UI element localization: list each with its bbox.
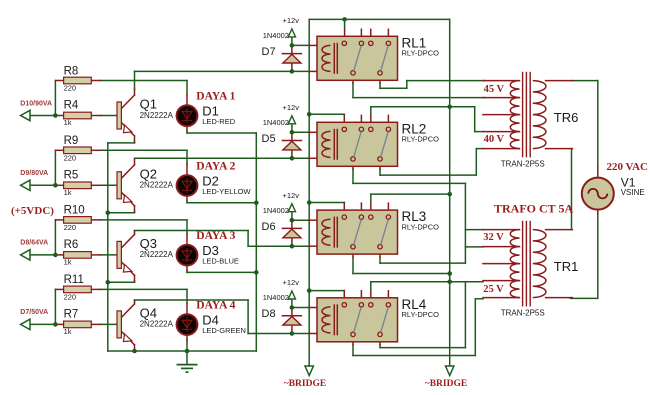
svg-text:1k: 1k bbox=[64, 188, 72, 197]
svg-text:~BRIDGE: ~BRIDGE bbox=[284, 379, 326, 389]
svg-text:R8: R8 bbox=[64, 65, 79, 77]
svg-text:R7: R7 bbox=[64, 309, 79, 321]
svg-text:+12v: +12v bbox=[283, 278, 300, 287]
svg-text:VSINE: VSINE bbox=[621, 188, 645, 197]
svg-text:D8: D8 bbox=[262, 308, 276, 320]
svg-text:2N2222A: 2N2222A bbox=[140, 320, 174, 329]
svg-text:1N4002: 1N4002 bbox=[263, 206, 289, 215]
svg-text:D7/50VA: D7/50VA bbox=[20, 309, 48, 316]
svg-text:220: 220 bbox=[64, 84, 77, 93]
svg-text:D5: D5 bbox=[262, 133, 276, 145]
svg-text:220: 220 bbox=[64, 153, 77, 162]
svg-text:DAYA 2: DAYA 2 bbox=[196, 160, 235, 172]
svg-text:D6: D6 bbox=[262, 221, 276, 233]
svg-text:D10/90VA: D10/90VA bbox=[20, 100, 52, 107]
svg-text:220 VAC: 220 VAC bbox=[607, 161, 649, 173]
svg-text:TRAN-2P5S: TRAN-2P5S bbox=[501, 309, 545, 318]
svg-text:2N2222A: 2N2222A bbox=[140, 181, 174, 190]
svg-text:TRAN-2P5S: TRAN-2P5S bbox=[501, 160, 545, 169]
svg-text:R6: R6 bbox=[64, 239, 79, 251]
svg-text:TR6: TR6 bbox=[554, 110, 579, 125]
svg-text:+12v: +12v bbox=[283, 16, 300, 25]
svg-text:RLY-DPCO: RLY-DPCO bbox=[402, 135, 440, 144]
svg-text:R9: R9 bbox=[64, 135, 79, 147]
svg-text:45 V: 45 V bbox=[484, 84, 505, 95]
svg-text:R5: R5 bbox=[64, 170, 79, 182]
svg-text:1k: 1k bbox=[64, 327, 72, 336]
svg-text:220: 220 bbox=[64, 223, 77, 232]
svg-text:(+5VDC): (+5VDC) bbox=[11, 205, 54, 217]
svg-text:R4: R4 bbox=[64, 100, 79, 112]
svg-text:RLY-DPCO: RLY-DPCO bbox=[402, 49, 440, 58]
svg-text:+12v: +12v bbox=[283, 191, 300, 200]
svg-text:1k: 1k bbox=[64, 257, 72, 266]
svg-text:LED-YELLOW: LED-YELLOW bbox=[202, 187, 251, 196]
svg-text:+12v: +12v bbox=[283, 103, 300, 112]
svg-text:Q3: Q3 bbox=[140, 236, 157, 251]
svg-text:DAYA 3: DAYA 3 bbox=[196, 230, 235, 242]
svg-text:220: 220 bbox=[64, 292, 77, 301]
svg-text:TRAFO CT 5A: TRAFO CT 5A bbox=[494, 202, 573, 216]
svg-text:RLY-DPCO: RLY-DPCO bbox=[402, 222, 440, 231]
svg-text:1N4002: 1N4002 bbox=[263, 293, 289, 302]
svg-text:Q1: Q1 bbox=[140, 97, 157, 112]
svg-text:DAYA 4: DAYA 4 bbox=[196, 299, 235, 311]
svg-text:R11: R11 bbox=[64, 274, 84, 286]
svg-text:D8/64VA: D8/64VA bbox=[20, 240, 48, 247]
svg-text:TR1: TR1 bbox=[554, 259, 579, 274]
svg-text:2N2222A: 2N2222A bbox=[140, 250, 174, 259]
svg-text:40 V: 40 V bbox=[484, 134, 505, 145]
svg-text:1k: 1k bbox=[64, 118, 72, 127]
svg-text:DAYA 1: DAYA 1 bbox=[196, 91, 235, 103]
svg-text:1N4002: 1N4002 bbox=[263, 31, 289, 40]
svg-text:RLY-DPCO: RLY-DPCO bbox=[402, 310, 440, 319]
svg-text:Q2: Q2 bbox=[140, 167, 157, 182]
svg-text:2N2222A: 2N2222A bbox=[140, 111, 174, 120]
svg-text:LED-GREEN: LED-GREEN bbox=[202, 326, 246, 335]
svg-text:LED-RED: LED-RED bbox=[202, 117, 236, 126]
svg-text:D7: D7 bbox=[262, 46, 276, 58]
svg-text:Q4: Q4 bbox=[140, 306, 157, 321]
svg-text:32 V: 32 V bbox=[483, 232, 504, 243]
svg-text:1N4002: 1N4002 bbox=[263, 118, 289, 127]
svg-text:R10: R10 bbox=[64, 205, 85, 217]
svg-text:LED-BLUE: LED-BLUE bbox=[202, 256, 239, 265]
svg-text:25 V: 25 V bbox=[483, 284, 504, 295]
svg-text:D9/80VA: D9/80VA bbox=[20, 170, 48, 177]
svg-text:~BRIDGE: ~BRIDGE bbox=[425, 379, 467, 389]
